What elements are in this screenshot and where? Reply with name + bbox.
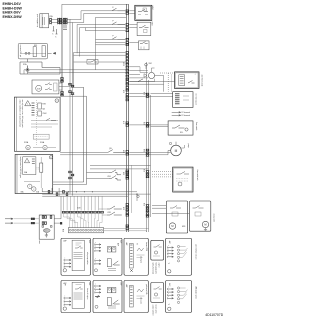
wire left bus pair xyxy=(69,19,71,194)
wire K1M b xyxy=(59,89,62,91)
node circle column xyxy=(177,245,179,247)
node warning triangle xyxy=(25,101,31,106)
node terminal row X2M ticks xyxy=(62,211,65,213)
wire ss2 out xyxy=(155,75,164,77)
wire K1M a xyxy=(59,82,62,84)
svg-text:4D110707D: 4D110707D xyxy=(205,313,223,317)
svg-text:4x: 4x xyxy=(137,244,139,246)
node cross mark xyxy=(130,269,133,272)
node circle E xyxy=(49,156,52,159)
node coil K1M xyxy=(36,85,42,91)
wire pump left 2 xyxy=(60,154,125,156)
node tr plug xyxy=(60,222,62,224)
switch legend row2 xyxy=(113,300,120,304)
wire aux 4 xyxy=(87,177,110,179)
svg-text:2: 2 xyxy=(33,189,34,191)
node inline connectors xyxy=(58,18,60,21)
svg-text:PC demand: PC demand xyxy=(182,115,191,117)
svg-text:EHBX-D9W: EHBX-D9W xyxy=(3,15,23,19)
wire to A10P 2 xyxy=(129,83,163,85)
relay contact K2M aux xyxy=(107,206,122,209)
wire tr out xyxy=(54,218,61,220)
switch S1L flow switch box xyxy=(168,121,193,135)
svg-text:x4: x4 xyxy=(168,304,170,306)
node zigzag xyxy=(137,248,144,251)
node SS2 pin xyxy=(145,63,148,66)
node connector column 2 xyxy=(130,286,134,308)
svg-text:X1M: X1M xyxy=(153,5,155,9)
node ss1 stub xyxy=(27,59,29,62)
wire bottom bus 2 xyxy=(42,193,150,195)
svg-text:x4: x4 xyxy=(168,263,170,265)
wire ss2 drop xyxy=(163,76,165,92)
svg-text:X2M: X2M xyxy=(152,21,154,25)
switch on A10P wire xyxy=(138,79,143,82)
wire to X5M a xyxy=(129,93,147,95)
wire heater feeds xyxy=(41,188,43,192)
wire aux 1 xyxy=(90,164,151,166)
wire arrow 2 xyxy=(14,222,40,224)
node pin arrows E xyxy=(168,247,174,249)
node connector column xyxy=(130,244,134,269)
svg-text:S1L: S1L xyxy=(180,132,183,134)
node entry connectors xyxy=(42,215,44,218)
node legend circle B xyxy=(95,269,98,272)
wire aux 2 xyxy=(90,168,149,170)
node pin bars xyxy=(32,158,35,160)
node bus connectors lower xyxy=(126,81,129,83)
wire nest to strip xyxy=(64,214,70,228)
resistor F1B vertical xyxy=(40,163,43,172)
wire circuit pair xyxy=(96,38,126,40)
wire ss1 internal xyxy=(22,52,47,54)
wire extra b xyxy=(96,44,126,46)
wire tr out2 xyxy=(54,222,61,224)
transistor M2S valve box xyxy=(190,201,211,231)
wire to K1A xyxy=(129,10,135,12)
wire right bus xyxy=(146,62,148,232)
node demand arrows xyxy=(172,112,181,117)
relay K2M coil xyxy=(43,145,47,149)
wire aux feed left xyxy=(53,181,84,183)
svg-text:demand PCB: demand PCB xyxy=(145,242,147,251)
op-amp A10P thermostat IF xyxy=(175,72,200,89)
svg-text:M: M xyxy=(204,223,206,227)
relay K2A box xyxy=(137,22,151,35)
wire drop right xyxy=(136,194,138,201)
breaker F1B xyxy=(112,37,117,40)
op-amp A0P legend row2 xyxy=(124,281,148,313)
node legend circle A xyxy=(63,269,66,272)
wire tank feed xyxy=(74,54,127,56)
node circle C xyxy=(55,99,59,103)
wire k2m left b xyxy=(102,214,107,216)
wire X1A feed xyxy=(96,16,127,18)
node circle dot xyxy=(137,195,139,197)
node model list xyxy=(3,2,23,19)
node field supply arrows xyxy=(5,218,13,224)
op-amp A8P legend demand PCB xyxy=(124,238,148,275)
relay K1A box xyxy=(135,5,152,20)
node bus connectors xyxy=(126,10,129,12)
svg-text:K2: K2 xyxy=(44,147,46,149)
wire to K3M xyxy=(74,61,88,63)
wire to K2A xyxy=(129,24,137,26)
node legend circle F xyxy=(63,307,66,310)
wire to X5M b xyxy=(129,95,172,97)
wire hx xyxy=(73,86,84,88)
svg-text:PC demand: PC demand xyxy=(182,112,191,114)
node relay cell xyxy=(107,288,111,293)
resistor R1t xyxy=(33,47,36,57)
switch Q1L thermal xyxy=(108,150,125,153)
svg-text:3-way valve: 3-way valve xyxy=(213,214,215,223)
node pump pin xyxy=(169,142,171,144)
op-amp A5P legend bizone xyxy=(61,281,91,313)
svg-text:EHBX-D6V: EHBX-D6V xyxy=(3,11,22,15)
wire fan E xyxy=(180,247,188,258)
wire arrow 1 xyxy=(14,218,40,220)
node pin header X7A xyxy=(32,102,35,104)
wire circuit pair xyxy=(77,24,125,26)
node stub connectors below xyxy=(53,26,58,34)
node contact a xyxy=(25,52,27,54)
op-amp A7P user interface connector xyxy=(40,14,49,28)
op-amp A12P thermostat box xyxy=(173,167,193,192)
svg-text:M: M xyxy=(171,224,173,228)
svg-text:M: M xyxy=(175,149,178,153)
node pair clusters xyxy=(68,83,71,85)
op-amp A2P switch box xyxy=(14,97,60,151)
wire extra a xyxy=(86,30,126,32)
wire to S1L b xyxy=(151,126,169,128)
op-amp A1P legend row2 xyxy=(166,281,192,313)
node contact b xyxy=(28,52,30,54)
wire left bus L xyxy=(61,20,63,97)
wire to K3A xyxy=(129,42,138,44)
wire heater risers xyxy=(83,87,85,182)
wire aux 3 xyxy=(87,172,110,174)
svg-text:E: E xyxy=(50,157,51,159)
node aux ticks xyxy=(126,172,129,174)
wire vertical right of bus xyxy=(131,165,133,213)
node black arrow xyxy=(95,296,100,298)
switch S2T legend small row2 xyxy=(151,283,164,303)
wire dashed thermostat xyxy=(160,72,175,74)
wire internal h xyxy=(31,120,58,122)
wire to A10P 1 xyxy=(129,81,174,83)
node inner option box xyxy=(23,157,36,175)
wire main bus A xyxy=(125,4,127,232)
wire to heater risers xyxy=(62,95,87,97)
switch legend c2 xyxy=(113,261,120,265)
node stub pair xyxy=(63,25,67,30)
wire valve2 feed xyxy=(152,213,190,215)
node bus L ticks xyxy=(60,78,63,80)
node X2M strip xyxy=(68,228,103,233)
wire drop bundle xyxy=(63,196,65,210)
wire bottom bus 3 xyxy=(42,195,128,197)
wire k2m left xyxy=(99,208,107,210)
svg-text:K5: K5 xyxy=(27,147,29,149)
op-amp A6P legend row2 xyxy=(93,281,122,313)
wire to S1L xyxy=(129,124,168,126)
ground symbol in box xyxy=(45,233,48,237)
ground terminal box X1A xyxy=(20,62,60,74)
node E1H E2H circles xyxy=(28,184,32,188)
transistor M1S valve box xyxy=(166,201,187,233)
relay K1M contactor box xyxy=(32,80,59,94)
resistor F2B fuse chain xyxy=(38,103,42,109)
wire dashed internal xyxy=(35,100,37,145)
op-amp A11P connector box xyxy=(173,92,193,108)
relay K3A box xyxy=(139,41,150,50)
wire main bus B xyxy=(127,4,129,232)
wire to X5M xyxy=(151,93,173,95)
node inner pcb xyxy=(72,240,84,271)
resistor R2t xyxy=(42,46,45,57)
wire top supply xyxy=(62,3,128,5)
wire bus mid riser xyxy=(95,17,97,69)
node connector pair X2A xyxy=(50,18,52,21)
wire ui 2 xyxy=(52,22,84,24)
node legend circle E xyxy=(168,270,171,273)
svg-text:EHBH-D6V: EHBH-D6V xyxy=(3,2,22,6)
node circle col 2 xyxy=(177,287,179,289)
wire dashed to A12P xyxy=(152,171,173,173)
node right bus ticks xyxy=(146,93,149,95)
node junction dots xyxy=(68,191,69,192)
wire K3M to bus xyxy=(98,61,126,63)
wire K1M to pair xyxy=(59,86,70,88)
wire bottom bus 1 xyxy=(42,191,137,193)
ground symbol xyxy=(26,66,30,73)
relay contact K3M xyxy=(87,60,98,65)
switch S1T legend small xyxy=(151,240,164,260)
wire to K2A b xyxy=(129,27,137,29)
svg-text:Q1L: Q1L xyxy=(109,148,112,150)
node X1A conn xyxy=(179,75,185,86)
relay K5M coil xyxy=(26,145,30,149)
svg-text:to outdoor unit: to outdoor unit xyxy=(36,14,39,27)
transistor winding oval xyxy=(43,229,50,233)
node pin squares xyxy=(42,226,44,228)
wire pump left xyxy=(60,151,108,153)
breaker F1B xyxy=(112,8,117,11)
transistor TR1 transformer box xyxy=(39,215,54,239)
wire fan to SS2 xyxy=(129,66,140,68)
wire circuit pair xyxy=(81,10,125,12)
op-amp A2P legend interface xyxy=(166,238,192,275)
wire pump drop xyxy=(167,151,169,155)
svg-text:M2S: M2S xyxy=(182,226,185,228)
node relay cells xyxy=(107,247,111,252)
wire pump 2 xyxy=(129,154,168,156)
node inner pcb 2 xyxy=(72,282,84,308)
node connector strip X10A xyxy=(126,52,129,54)
wire pump 1 xyxy=(129,151,170,153)
op-amp A3P legend solar kit xyxy=(61,238,91,275)
wire valves feed xyxy=(152,205,166,207)
capacitor dashed option box xyxy=(33,134,49,139)
wire ui 1 xyxy=(52,19,81,21)
wire pair to bus xyxy=(23,70,25,74)
svg-text:user thermostat: user thermostat xyxy=(201,75,204,87)
transistor M2P pump motor xyxy=(171,145,182,156)
op-amp A4P legend digital IO xyxy=(93,238,122,275)
wire to K1A b xyxy=(129,12,135,14)
node warning triangle 2 xyxy=(24,158,29,163)
wire dashes xyxy=(37,168,40,169)
wire heater links xyxy=(24,181,40,183)
svg-text:pump: pump xyxy=(187,144,189,148)
svg-text:SS2: SS2 xyxy=(149,63,152,65)
relay contact K1M aux xyxy=(109,170,121,175)
wire circuit pair xyxy=(74,52,126,54)
node inline plugs xyxy=(31,218,32,220)
resistor E1H backup heater box xyxy=(15,155,53,194)
breaker F1B xyxy=(112,22,117,25)
relay contact K5M aux xyxy=(109,176,121,180)
svg-text:1: 1 xyxy=(29,186,30,188)
svg-text:SS1: SS1 xyxy=(34,45,37,47)
switch SS1 selector box xyxy=(18,43,47,59)
svg-text:EHBH-D9W: EHBH-D9W xyxy=(3,6,23,10)
switch SS2 rotary xyxy=(148,72,154,78)
wire routing nest xyxy=(73,53,75,88)
wire ss1 out xyxy=(48,52,56,54)
node inline bus ticks xyxy=(48,190,50,193)
node connector bars xyxy=(175,93,180,95)
svg-text:flow switch: flow switch xyxy=(195,122,198,130)
wire strip to valves xyxy=(104,228,149,230)
wire drop to X2A xyxy=(61,4,63,19)
